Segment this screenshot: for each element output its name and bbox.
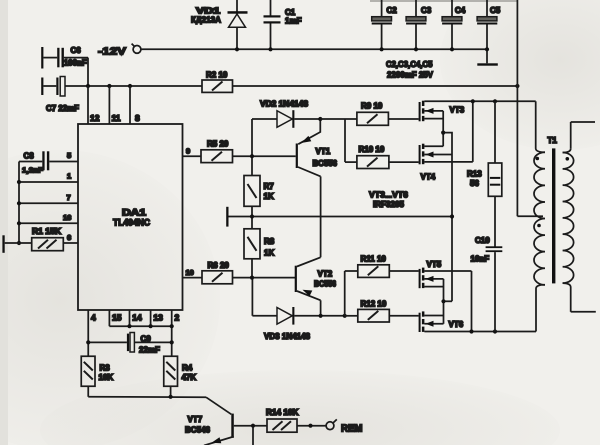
- transistor Q7: VT7 BC546: [185, 414, 267, 445]
- svg-text:VD3 1N4148: VD3 1N4148: [264, 332, 311, 341]
- resistor R10: [345, 145, 419, 169]
- wire: left pin bus vertical: [18, 162, 20, 244]
- node: REM line junction: [308, 424, 312, 428]
- wire: C7 line to transformer feed: [65, 85, 517, 87]
- wire: pins 15-14-13-2 bus: [109, 325, 171, 327]
- wire: ground mid line: [229, 216, 453, 218]
- wire: pin12 pin11 pin8 drops: [88, 86, 130, 124]
- resistor R6: [183, 261, 296, 284]
- svg-text:BC546: BC546: [185, 426, 211, 435]
- terminal bar pin6 input: [2, 235, 4, 253]
- diode VD3: [252, 307, 344, 341]
- capacitor C9: [88, 333, 171, 355]
- svg-text:4: 4: [91, 313, 96, 323]
- svg-text:12: 12: [90, 113, 100, 123]
- resistor R9: [320, 102, 418, 126]
- svg-text:C8: C8: [24, 152, 35, 161]
- svg-text:56: 56: [470, 179, 479, 188]
- node: bus junctions: [127, 324, 173, 328]
- resistor R11: [345, 255, 419, 278]
- svg-text:VT4: VT4: [421, 173, 436, 182]
- svg-text:9: 9: [186, 147, 190, 156]
- transistor VT4 (MOSFET): [419, 101, 473, 181]
- svg-text:VT2: VT2: [318, 269, 333, 278]
- wire: -12V supply rail: [141, 48, 487, 50]
- wire: secondary top lead: [571, 121, 595, 123]
- svg-text:R6 20: R6 20: [208, 261, 230, 270]
- svg-text:VT3...VT6: VT3...VT6: [369, 190, 408, 200]
- svg-text:100nF: 100nF: [64, 59, 87, 68]
- svg-text:13: 13: [153, 313, 163, 323]
- capacitor C10: [471, 196, 503, 331]
- wire: pin 16: [19, 222, 78, 224]
- svg-text:R4: R4: [182, 363, 193, 372]
- capacitor C2: [372, 0, 398, 49]
- svg-text:2: 2: [175, 313, 180, 323]
- node: base line junction: [251, 424, 255, 428]
- svg-text:1mF: 1mF: [285, 17, 302, 26]
- transformer T1 secondary winding: [563, 122, 574, 312]
- wire: common source bus down: [451, 155, 453, 302]
- svg-text:C5: C5: [490, 6, 501, 15]
- wire: main +feed vertical to center tap: [516, 0, 518, 216]
- pin 15 wire: [109, 310, 121, 326]
- svg-text:R5 20: R5 20: [207, 140, 229, 149]
- node: junctions on -12V rail: [235, 47, 489, 51]
- svg-text:VT5: VT5: [427, 260, 442, 269]
- svg-text:1,2nF: 1,2nF: [22, 166, 43, 175]
- resistor R3: [81, 356, 113, 386]
- diode VD1: [191, 0, 248, 49]
- svg-text:R14 10K: R14 10K: [266, 408, 299, 417]
- resistor R13: [467, 101, 502, 196]
- svg-text:R3: R3: [100, 363, 111, 372]
- wire: bottom rail: [424, 331, 536, 333]
- label VT3..VT6 IRF3205: [369, 190, 408, 210]
- svg-text:1K: 1K: [264, 192, 274, 201]
- transistor Q2: VT2 BC556: [295, 257, 337, 316]
- svg-text:BC556: BC556: [313, 159, 338, 168]
- wire: R8 to pin10 line: [251, 259, 253, 278]
- wire: C6 to C7 line corner: [87, 58, 89, 86]
- wire: R11/R12 tie: [344, 271, 346, 316]
- svg-text:REM: REM: [341, 422, 363, 434]
- wire: center tap: [517, 215, 543, 217]
- svg-text:47K: 47K: [182, 373, 197, 382]
- svg-text:10nF: 10nF: [471, 255, 490, 264]
- svg-text:10K: 10K: [99, 373, 114, 382]
- node: driver junctions: [250, 117, 347, 318]
- svg-text:10: 10: [186, 268, 194, 277]
- svg-text:VD2 1N4148: VD2 1N4148: [260, 100, 309, 109]
- svg-text:6: 6: [67, 233, 71, 242]
- resistor R7: [244, 176, 274, 207]
- label C2..C5 values: [386, 59, 433, 80]
- svg-text:C6: C6: [71, 46, 82, 55]
- transformer T1 primary winding: [534, 101, 545, 331]
- pin 4 label and wire: [88, 310, 96, 356]
- svg-text:R1 15K: R1 15K: [32, 227, 61, 236]
- transformer T1 core: [552, 148, 555, 283]
- pin 13 wire: [151, 310, 164, 326]
- pin 2 wire: [172, 310, 180, 356]
- svg-text:T1: T1: [548, 136, 558, 145]
- svg-text:C2,C3,C4,C5: C2,C3,C4,C5: [386, 59, 433, 69]
- capacitor C6: [43, 46, 88, 68]
- capacitor C5: [477, 0, 501, 63]
- wire: VT5/VT6 drain vertical: [471, 271, 473, 332]
- svg-text:1: 1: [67, 172, 71, 181]
- svg-text:C2: C2: [387, 6, 398, 15]
- wire: pin 7: [19, 202, 78, 204]
- wire: R9/R10 tie: [344, 119, 346, 162]
- svg-text:R7: R7: [264, 182, 275, 191]
- svg-text:VT3: VT3: [450, 106, 465, 115]
- svg-text:VT7: VT7: [188, 415, 203, 424]
- terminal bar input top: [41, 47, 43, 69]
- resistor R1: [5, 227, 78, 251]
- node: winding polarity dots: [536, 157, 570, 228]
- transistor VT3 (MOSFET): [419, 101, 536, 133]
- svg-text:C7 22mF: C7 22mF: [46, 104, 79, 113]
- pin labels 12 11 8: [90, 113, 140, 123]
- svg-text:15: 15: [112, 313, 122, 323]
- node: R4 bottom junction: [169, 395, 173, 399]
- wire: VT5 source tie jog: [444, 300, 453, 302]
- svg-text:2200mF 25V: 2200mF 25V: [387, 70, 433, 80]
- capacitor C4: [442, 0, 466, 49]
- capacitor C3: [406, 0, 432, 49]
- resistor R4: [164, 356, 197, 386]
- wire: emitter node drop: [252, 426, 254, 445]
- transistor VT5 (MOSFET): [419, 260, 472, 301]
- svg-text:R12 10: R12 10: [361, 300, 387, 309]
- svg-text:R2 10: R2 10: [206, 71, 228, 80]
- svg-text:5: 5: [67, 151, 71, 160]
- pin 14 wire: [130, 310, 143, 326]
- wire: R3/R4 bottoms to VT7 collector: [88, 386, 231, 414]
- svg-text:14: 14: [132, 313, 142, 323]
- svg-text:8: 8: [135, 113, 140, 123]
- terminal -12V: [98, 44, 141, 58]
- svg-text:7: 7: [67, 193, 71, 202]
- diode VD2: [252, 100, 320, 128]
- svg-text:R11 10: R11 10: [361, 255, 387, 264]
- node: mosfet junctions: [441, 99, 497, 333]
- node: C9 line junctions: [86, 340, 174, 344]
- svg-text:16: 16: [63, 213, 71, 222]
- svg-text:-12V: -12V: [98, 46, 126, 58]
- svg-text:C4: C4: [455, 6, 466, 15]
- svg-text:R10 10: R10 10: [359, 145, 385, 154]
- svg-text:R13: R13: [467, 170, 482, 179]
- terminal bar input bottom: [41, 78, 43, 96]
- svg-text:C10: C10: [475, 236, 490, 245]
- node: C7 line junctions: [86, 84, 520, 88]
- svg-text:TL494NC: TL494NC: [113, 218, 150, 229]
- svg-text:1K: 1K: [264, 248, 274, 257]
- capacitor C7: [43, 77, 79, 114]
- resistor R8: [244, 229, 275, 259]
- svg-text:22mF: 22mF: [139, 346, 160, 355]
- svg-text:R8: R8: [264, 237, 275, 246]
- op-amp U1: IC DA1 TL494NC box: [78, 124, 183, 310]
- resistor R14: [266, 408, 326, 432]
- transistor VT6 (MOSFET): [419, 301, 464, 332]
- node: left bus junctions: [17, 180, 21, 245]
- svg-text:BC556: BC556: [314, 279, 336, 288]
- transistor Q1: VT1 BC556: [252, 119, 338, 257]
- ground bar under C5: [477, 63, 498, 65]
- wire: pin 1: [19, 181, 78, 183]
- svg-text:КД213А: КД213А: [191, 15, 221, 25]
- svg-text:11: 11: [112, 113, 121, 123]
- capacitor C1: [264, 0, 302, 49]
- wire: R5 node up to VD2 and down to R7: [251, 119, 253, 176]
- svg-text:C3: C3: [421, 6, 432, 15]
- resistor R12: [345, 300, 419, 323]
- capacitor C8: [19, 151, 78, 174]
- wire: base node down to VD3 line: [251, 278, 253, 316]
- resistor R2: [202, 71, 233, 93]
- wire: top edge cut-off rail: [370, 0, 517, 2]
- wire: secondary bottom lead: [571, 311, 596, 313]
- svg-text:VT6: VT6: [449, 320, 464, 329]
- terminal REM: [326, 419, 363, 434]
- svg-text:R9 10: R9 10: [361, 102, 383, 111]
- resistor R5: [183, 140, 253, 163]
- ground bar: [226, 207, 228, 227]
- svg-text:VT1: VT1: [316, 147, 331, 156]
- svg-text:IRF3205: IRF3205: [373, 199, 404, 209]
- svg-text:C9: C9: [141, 335, 152, 344]
- wire: R7 to ground line: [251, 206, 253, 229]
